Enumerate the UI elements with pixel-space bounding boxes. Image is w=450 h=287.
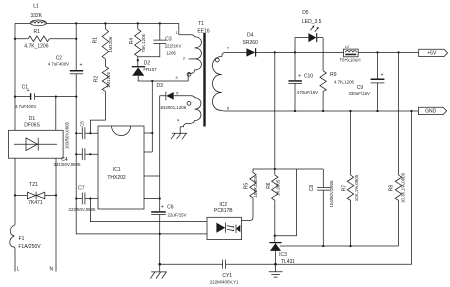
svg-text:R5: R5: [244, 183, 250, 190]
svg-text:PC817B: PC817B: [214, 208, 233, 214]
svg-text:R9: R9: [330, 72, 337, 78]
svg-text:IC3: IC3: [279, 252, 287, 258]
svg-text:T6*9,10uH: T6*9,10uH: [340, 57, 361, 62]
svg-text:DF06S: DF06S: [24, 122, 40, 128]
svg-text:F1A/250V: F1A/250V: [18, 244, 41, 250]
svg-text:L: L: [17, 267, 20, 273]
svg-text:D2: D2: [144, 60, 151, 66]
svg-text:TZ1: TZ1: [29, 182, 38, 188]
svg-text:C7: C7: [78, 186, 85, 192]
svg-text:C8: C8: [309, 185, 315, 192]
svg-text:332K: 332K: [30, 13, 42, 19]
svg-text:470uF/15V: 470uF/15V: [297, 90, 319, 95]
svg-text:1206: 1206: [166, 51, 176, 56]
svg-text:CY1: CY1: [222, 273, 232, 279]
svg-text:THX202: THX202: [107, 175, 126, 181]
svg-text:C5: C5: [79, 121, 84, 127]
svg-text:R6: R6: [266, 182, 272, 189]
svg-text:L1: L1: [33, 3, 39, 9]
svg-text:22uF/15V: 22uF/15V: [167, 212, 186, 217]
svg-text:4.7K_1206: 4.7K_1206: [24, 44, 48, 50]
svg-text:R7: R7: [341, 185, 347, 192]
svg-text:R8: R8: [389, 185, 395, 192]
svg-text:1K,0805: 1K,0805: [275, 179, 280, 196]
svg-text:4.7uF400V: 4.7uF400V: [48, 61, 70, 66]
svg-text:D3: D3: [156, 83, 163, 89]
svg-text:+: +: [27, 88, 30, 94]
svg-text:FR107: FR107: [143, 67, 157, 72]
svg-text:104/50V,0805: 104/50V,0805: [329, 180, 334, 207]
svg-text:C9: C9: [357, 85, 364, 91]
svg-text:R1: R1: [33, 29, 40, 35]
svg-text:+: +: [380, 72, 383, 78]
svg-text:IC1: IC1: [113, 167, 121, 173]
svg-text:R4: R4: [129, 38, 135, 45]
svg-text:1N4001,1206: 1N4001,1206: [160, 105, 187, 110]
svg-text:N: N: [49, 267, 53, 273]
svg-text:R1: R1: [92, 37, 98, 44]
svg-text:TL431: TL431: [281, 259, 295, 265]
svg-text:222/1KV: 222/1KV: [165, 44, 182, 49]
svg-text:100R,0805: 100R,0805: [253, 176, 258, 198]
svg-text:+: +: [80, 63, 83, 69]
svg-text:C6: C6: [167, 205, 174, 211]
svg-text:F1: F1: [19, 236, 25, 242]
svg-text:331/50V,0805: 331/50V,0805: [54, 162, 81, 167]
svg-text:+5V: +5V: [427, 51, 437, 57]
svg-text:+: +: [161, 205, 164, 211]
svg-text:R2: R2: [94, 76, 100, 83]
svg-text:10.3K,1%,0805: 10.3K,1%,0805: [401, 172, 406, 203]
svg-text:10K,1%,0805: 10K,1%,0805: [354, 174, 359, 201]
svg-text:103/50V,0805: 103/50V,0805: [64, 121, 69, 148]
svg-text:330uF/16V: 330uF/16V: [348, 91, 370, 96]
svg-text:7K471: 7K471: [28, 200, 43, 206]
svg-text:222M/400V,Y1: 222M/400V,Y1: [210, 280, 239, 285]
svg-text:D5: D5: [302, 10, 309, 16]
svg-text:GND: GND: [425, 109, 437, 115]
svg-text:C10: C10: [304, 73, 313, 79]
svg-text:223/50V,0805: 223/50V,0805: [69, 207, 96, 212]
svg-text:IC2: IC2: [219, 202, 227, 208]
svg-text:C3: C3: [165, 37, 172, 43]
svg-text:4.7uF400V: 4.7uF400V: [15, 104, 37, 109]
svg-text:1M1206: 1M1206: [108, 36, 113, 52]
svg-text:EE16: EE16: [197, 28, 209, 34]
svg-text:4.7K,1206: 4.7K,1206: [334, 79, 355, 84]
svg-text:75K,1206: 75K,1206: [141, 33, 146, 52]
svg-text:SR260: SR260: [243, 40, 259, 46]
svg-text:D4: D4: [247, 33, 254, 39]
svg-text:T1: T1: [198, 21, 204, 27]
svg-text:1M1206: 1M1206: [106, 72, 111, 88]
svg-text:L2: L2: [345, 44, 350, 49]
svg-text:D1: D1: [29, 116, 36, 122]
svg-text:+: +: [298, 73, 301, 79]
svg-text:LED_3.5: LED_3.5: [302, 19, 322, 25]
